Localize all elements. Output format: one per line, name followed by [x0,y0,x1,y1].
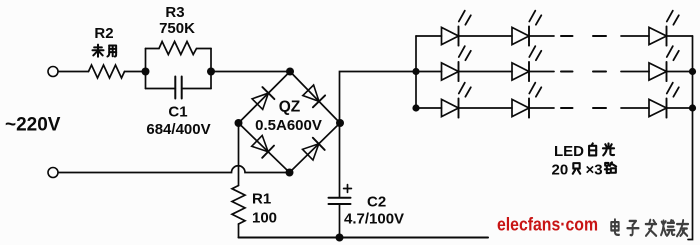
diode bridge top-right [303,85,325,107]
LED D9 [649,83,679,118]
node bridge left vertex [235,119,243,127]
capacitor C2 plates [329,198,351,204]
wire LED right bus [688,36,693,240]
LED D2 [512,11,541,46]
LED D1 [442,11,471,46]
wire bottom AC with hop over R1 branch [58,166,289,173]
svg-text:LED: LED [554,143,584,160]
svg-text:684/400V: 684/400V [146,121,210,138]
node bridge bottom vertex [286,169,294,177]
node LED right bus row3 [689,104,696,111]
wire bridge right vertex down to C2 [339,123,341,198]
svg-text:100: 100 [252,210,277,227]
node left of R3/C1 block [142,68,150,76]
bridge rectifier QZ diamond [239,72,341,173]
diode bridge bottom-right [303,138,325,160]
wire terminal to R2 [58,71,88,73]
capacitor C1 bottom branch wires [146,88,212,90]
svg-text:R1: R1 [252,191,271,208]
svg-text:R2: R2 [94,25,113,42]
wire bottom rail [239,237,489,239]
watermark 电子发烧友 text [611,219,619,234]
node LED right bus row2 [689,68,696,75]
svg-text:R3: R3 [165,4,184,21]
wire R2 to node [125,71,146,73]
wire row 1 segments [416,35,693,37]
svg-text:elecfans·com: elecfans·com [497,215,598,235]
LED D3 [649,11,679,46]
diode bridge top-left [252,87,274,109]
node LED left bus row3 [412,104,419,111]
LED D4 [442,46,471,81]
wire C2 to bottom rail [339,204,341,238]
svg-text:~220V: ~220V [5,115,61,136]
wire left vertical of parallel block [145,49,147,89]
svg-text:0.5A600V: 0.5A600V [255,117,322,134]
wire R1 to bottom rail [238,224,240,238]
LED D5 [512,46,541,81]
terminal bottom AC input [48,168,58,178]
LED D8 [512,83,541,118]
node C2 at bottom rail [336,234,344,242]
wire bridge right vertex up and right to LED bus [340,72,417,124]
svg-text:20: 20 [552,162,569,179]
svg-text:QZ: QZ [279,99,301,116]
wire bridge left vertex down to R1 [238,123,240,186]
resistor R2 [89,65,125,78]
C2 plus polarity mark [344,185,352,193]
wire right vertical of parallel block [210,49,212,89]
svg-text:C2: C2 [367,194,386,211]
svg-text:750K: 750K [159,20,195,37]
wire row 2 dashed continuation [561,71,606,73]
resistor R1 [232,186,245,225]
svg-text:×3: ×3 [586,162,603,179]
label 未用 (unused) [92,45,103,57]
svg-text:4.7/100V: 4.7/100V [344,211,404,228]
wire row 1 dashed continuation [561,35,606,37]
node bridge right vertex [336,119,344,127]
svg-text:C1: C1 [168,104,187,121]
wire node to bridge top [211,71,290,73]
wire row 3 dashed continuation [561,107,606,109]
diode bridge bottom-left [252,136,274,158]
resistor R3 top branch [146,42,212,55]
LED D7 [442,83,471,118]
capacitor C1 plates [175,77,181,99]
node bridge top vertex [286,68,294,76]
wire row 3 segments [416,107,693,109]
terminal top AC input [48,67,58,77]
wire row 2 segments [416,71,693,73]
node right of R3/C1 block [207,68,215,76]
wire LED left bus [415,36,417,108]
node LED left bus row2 [412,68,419,75]
LED D6 [649,46,679,81]
